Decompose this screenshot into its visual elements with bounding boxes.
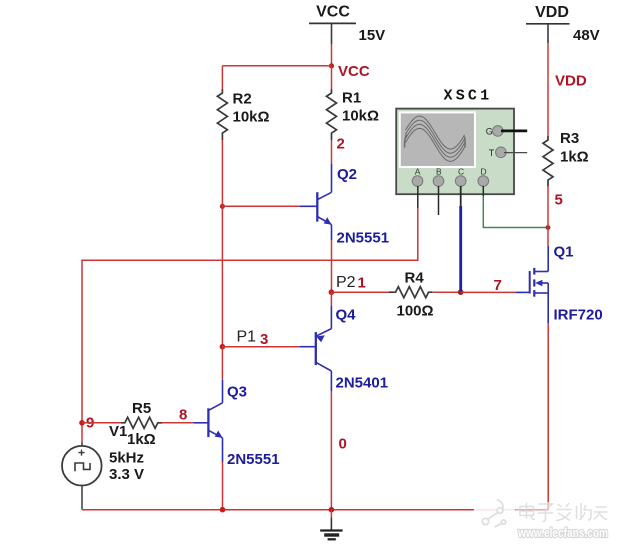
svg-text:5: 5 <box>555 192 563 209</box>
wire red ground rail <box>82 509 548 511</box>
wire red gate net 7 <box>461 291 516 293</box>
resistor R1 <box>327 89 337 140</box>
transistor Q3 (2N5551 NPN) <box>194 380 223 462</box>
svg-text:C: C <box>458 167 464 177</box>
svg-text:R2: R2 <box>233 91 252 108</box>
terminal G <box>493 126 504 137</box>
wire red horizontal VCC node to R2 column <box>222 65 331 67</box>
wire red node 9 vertical (to V1) <box>81 423 83 442</box>
svg-text:Q3: Q3 <box>227 384 247 401</box>
svg-text:R3: R3 <box>560 130 579 147</box>
wire red P2 to Q4 emitter <box>330 292 332 306</box>
svg-text:Q4: Q4 <box>336 307 357 324</box>
svg-text:R5: R5 <box>132 400 151 417</box>
svg-text:P2: P2 <box>336 274 356 291</box>
svg-text:www.elecfans.com: www.elecfans.com <box>517 526 608 540</box>
resistor R4 <box>389 287 433 298</box>
wire red R1 top lead <box>331 66 333 89</box>
svg-text:2: 2 <box>337 136 345 153</box>
wire red R2 top lead <box>221 66 223 89</box>
svg-text:48V: 48V <box>573 27 600 44</box>
svg-text:B: B <box>436 167 442 177</box>
wire red Q4 base <box>222 346 300 348</box>
wire red Q2 base <box>222 205 300 207</box>
scope screen <box>400 112 475 167</box>
svg-text:D: D <box>481 167 487 177</box>
wire red R4 to node 7 junction <box>433 291 461 293</box>
wire red Q2 emitter down to P2 <box>331 240 333 292</box>
svg-text:100Ω: 100Ω <box>397 303 434 320</box>
node junction dot rail/Q3 <box>220 507 226 513</box>
wire scope C blue down to node 7 junction <box>459 206 462 291</box>
svg-text:G: G <box>486 126 493 136</box>
transistor Q2 (2N5551 NPN) <box>300 164 332 240</box>
node P2 junction dot <box>329 289 335 295</box>
svg-text:15V: 15V <box>359 27 386 44</box>
wire red node 2 (R1 to Q2 collector) <box>331 140 333 164</box>
oscilloscope XSC1 <box>396 88 527 195</box>
watermark text 电子发烧友 <box>516 502 609 522</box>
svg-text:0: 0 <box>339 436 347 453</box>
wire red VDD down to R3 <box>547 43 549 136</box>
resistor R2 <box>217 89 227 140</box>
wire scope D stub black <box>482 186 484 196</box>
svg-text:10kΩ: 10kΩ <box>342 108 379 125</box>
svg-text:VDD: VDD <box>535 4 569 21</box>
node P1 junction dot <box>220 344 226 350</box>
wire red P1 to Q3 collector <box>221 347 223 380</box>
wire VCC stub red <box>331 44 333 66</box>
svg-text:2N5401: 2N5401 <box>336 375 389 392</box>
svg-text:1kΩ: 1kΩ <box>127 431 156 448</box>
power VCC symbol <box>309 4 356 45</box>
node VCC junction dot <box>329 63 334 68</box>
svg-text:VCC: VCC <box>316 4 350 21</box>
svg-text:V1: V1 <box>109 423 127 440</box>
svg-text:IRF720: IRF720 <box>554 307 603 324</box>
wire scope A stub black <box>417 186 419 208</box>
svg-text:XSC1: XSC1 <box>444 88 493 105</box>
svg-text:8: 8 <box>179 407 187 424</box>
wire red Q3 emitter down <box>222 462 224 510</box>
svg-text:P1: P1 <box>237 329 257 346</box>
mosfet Q1 (IRF720) <box>516 246 548 323</box>
wire red node 5 (R3 to Q1 drain) <box>547 186 549 246</box>
svg-text:VDD: VDD <box>555 73 587 90</box>
node 9 junction dot <box>79 420 85 426</box>
svg-text:R1: R1 <box>342 90 361 107</box>
transistor Q4 (2N5401 PNP) <box>300 306 331 391</box>
wire scope B stub black (dangling) <box>438 186 440 215</box>
svg-text:Q2: Q2 <box>337 166 357 183</box>
wire scope C stub black <box>460 186 462 206</box>
svg-text:R4: R4 <box>405 270 425 287</box>
wire red R2 column down <box>221 140 223 347</box>
svg-text:2N5551: 2N5551 <box>227 451 280 468</box>
source V1 (square wave) <box>62 442 102 509</box>
scope body <box>396 109 514 195</box>
svg-text:10kΩ: 10kΩ <box>233 109 270 126</box>
svg-text:T: T <box>489 148 495 158</box>
svg-text:3.3 V: 3.3 V <box>109 466 144 483</box>
ground symbol <box>320 510 342 540</box>
node junction dot rail/ground <box>329 507 335 513</box>
wire red horizontal scope-A net <box>82 208 418 423</box>
resistor R3 <box>543 136 553 186</box>
wire red P2 to R4 <box>331 291 389 293</box>
svg-text:7: 7 <box>494 277 502 294</box>
terminal T <box>496 147 507 158</box>
svg-text:VCC: VCC <box>338 63 370 80</box>
wire V1 bottom lead (black) <box>81 508 83 511</box>
scope trace waveforms <box>405 116 466 161</box>
svg-text:2N5551: 2N5551 <box>337 230 390 247</box>
resistor R5 <box>121 417 162 428</box>
node junction dot (R4 / scope C / gate) <box>458 289 464 295</box>
svg-text:3: 3 <box>260 331 268 348</box>
node junction dot green/drain <box>546 225 551 230</box>
wire red Q4 collector to ground rail, node 0 <box>330 391 332 510</box>
svg-text:1: 1 <box>358 275 366 292</box>
watermark logo circle <box>473 494 516 537</box>
wire red node 8 (R5 to Q3 base) <box>162 422 194 424</box>
wire red node9 to R5 <box>82 422 121 424</box>
node junction dot Q2 base <box>220 204 225 209</box>
svg-text:Q1: Q1 <box>554 244 574 261</box>
power VDD symbol <box>526 4 570 43</box>
svg-text:1kΩ: 1kΩ <box>560 149 589 166</box>
svg-text:A: A <box>415 167 421 177</box>
wire green scope D to drain node <box>483 196 548 228</box>
svg-text:5kHz: 5kHz <box>109 450 144 467</box>
wire red Q1 source down <box>547 323 549 509</box>
